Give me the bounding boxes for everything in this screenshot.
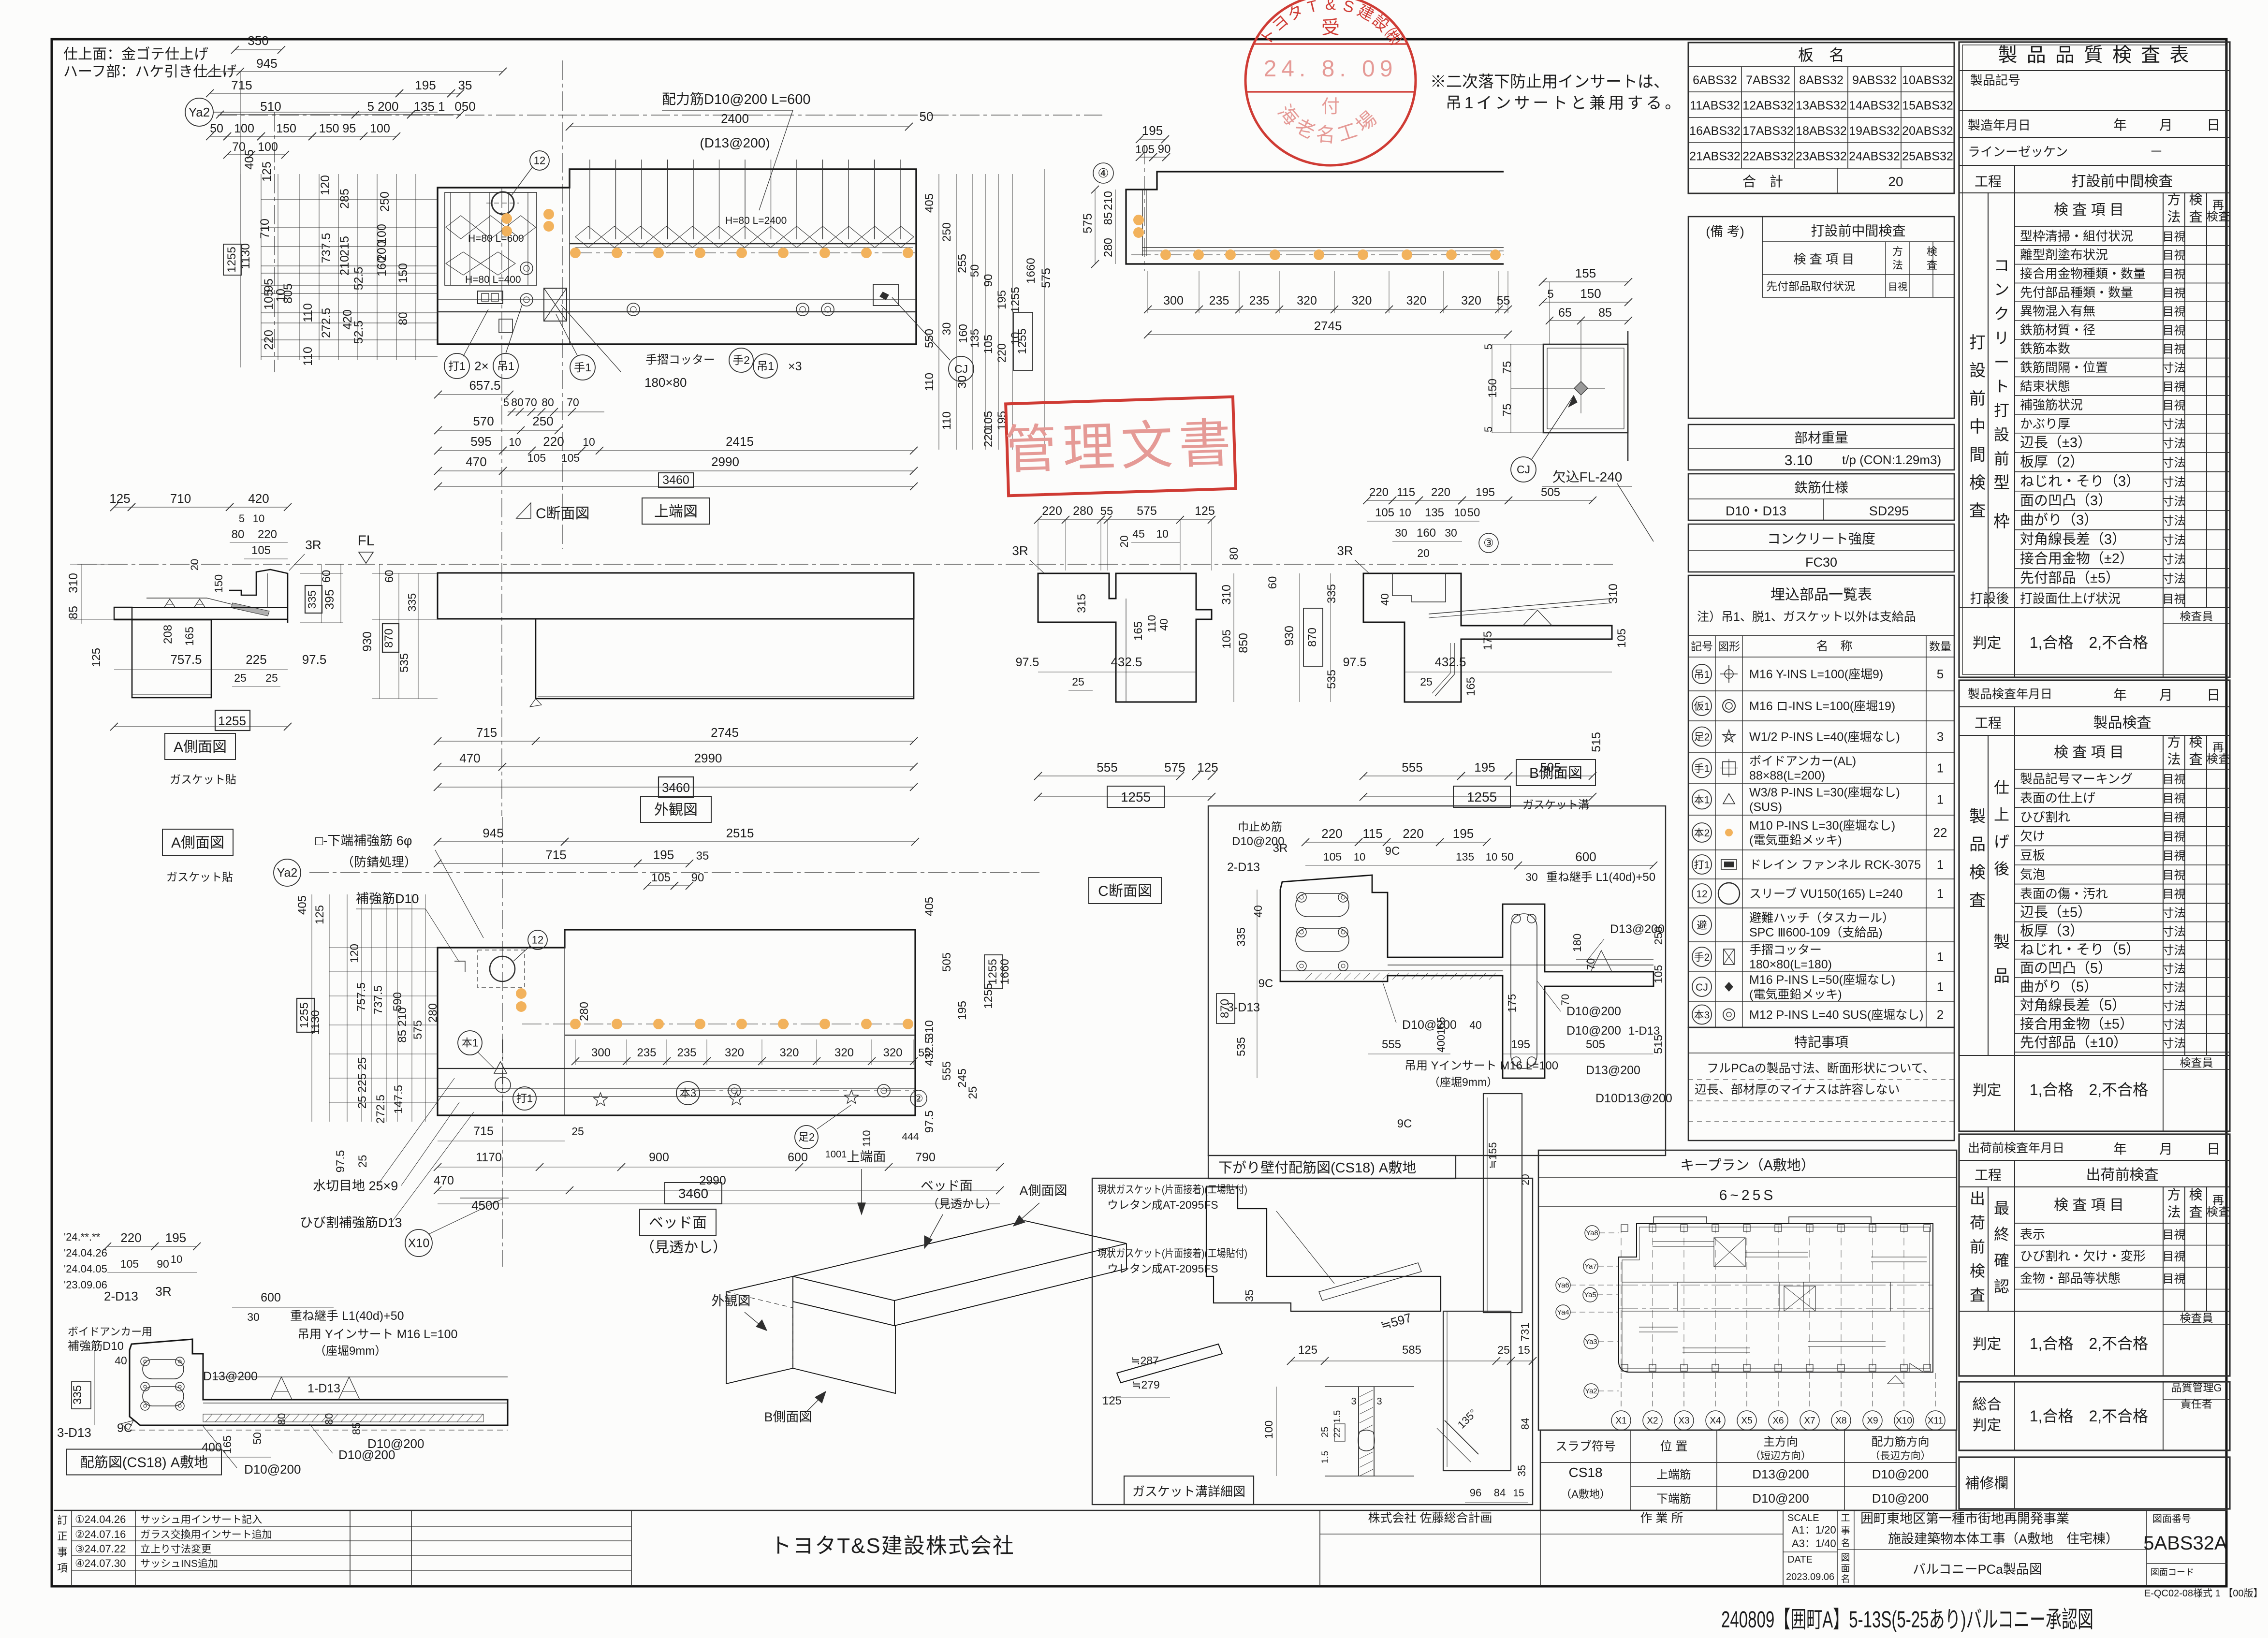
svg-text:405: 405 — [243, 149, 256, 170]
svg-text:2515: 2515 — [726, 826, 754, 840]
svg-text:195: 195 — [653, 848, 674, 862]
svg-text:215: 215 — [338, 236, 351, 256]
svg-text:85: 85 — [1598, 306, 1612, 320]
svg-text:欠込FL-240: 欠込FL-240 — [1552, 469, 1623, 484]
svg-text:主方向: 主方向 — [1763, 1435, 1798, 1448]
svg-text:25: 25 — [1497, 1344, 1510, 1356]
svg-text:手1: 手1 — [574, 361, 591, 374]
svg-text:2400: 2400 — [721, 111, 749, 126]
svg-text:585: 585 — [1402, 1344, 1421, 1357]
svg-text:570: 570 — [473, 414, 494, 428]
svg-text:25: 25 — [966, 1086, 980, 1099]
svg-text:D10@200: D10@200 — [1872, 1491, 1929, 1506]
svg-text:285: 285 — [338, 189, 351, 209]
svg-text:M16 ロ-INS L=100(座堀19): M16 ロ-INS L=100(座堀19) — [1749, 700, 1895, 713]
svg-text:2: 2 — [1937, 1008, 1944, 1022]
svg-text:2745: 2745 — [1314, 319, 1342, 333]
svg-text:方: 方 — [2167, 1187, 2180, 1202]
svg-text:155: 155 — [1575, 266, 1596, 280]
svg-text:1: 1 — [1937, 886, 1944, 901]
svg-text:ドレイン ファンネル RCK-3075: ドレイン ファンネル RCK-3075 — [1749, 858, 1921, 872]
svg-text:120: 120 — [348, 944, 361, 963]
svg-text:50: 50 — [1467, 506, 1480, 519]
svg-text:目視: 目視 — [2163, 811, 2186, 824]
svg-text:X9: X9 — [1867, 1416, 1878, 1426]
svg-text:90: 90 — [691, 871, 704, 884]
svg-text:再: 再 — [2212, 741, 2224, 754]
svg-text:505: 505 — [1586, 1038, 1605, 1051]
svg-text:本2: 本2 — [1694, 828, 1710, 839]
svg-text:製: 製 — [1993, 933, 2010, 951]
svg-text:吊1: 吊1 — [497, 360, 514, 372]
svg-text:505: 505 — [940, 952, 953, 972]
svg-text:320: 320 — [883, 1046, 902, 1059]
svg-text:50: 50 — [210, 122, 223, 135]
svg-text:5: 5 — [1482, 426, 1494, 432]
svg-text:3R: 3R — [1337, 543, 1353, 558]
svg-text:105: 105 — [1615, 629, 1628, 648]
svg-text:確: 確 — [1994, 1252, 2009, 1269]
svg-text:目視: 目視 — [2163, 324, 2186, 337]
svg-text:657.5: 657.5 — [469, 378, 500, 393]
svg-text:検 査 項 目: 検 査 項 目 — [2054, 745, 2124, 760]
svg-text:715: 715 — [476, 725, 497, 740]
svg-text:25: 25 — [1420, 675, 1433, 688]
svg-text:1: 1 — [1937, 857, 1944, 872]
svg-text:FC30: FC30 — [1805, 555, 1837, 570]
svg-text:Ya7: Ya7 — [1584, 1262, 1597, 1271]
svg-text:575: 575 — [411, 1020, 424, 1039]
svg-text:H=80 L=400: H=80 L=400 — [465, 274, 521, 285]
svg-text:225: 225 — [246, 652, 266, 667]
svg-text:品: 品 — [1969, 835, 1986, 854]
svg-text:判定: 判定 — [1973, 1336, 2002, 1352]
svg-text:50: 50 — [968, 264, 981, 278]
svg-text:≒287: ≒287 — [1131, 1354, 1159, 1367]
svg-text:施設建築物本体工事（А敷地 住宅棟）: 施設建築物本体工事（А敷地 住宅棟） — [1888, 1532, 2119, 1546]
svg-text:320: 320 — [1406, 294, 1427, 307]
svg-text:310: 310 — [1607, 584, 1620, 604]
svg-text:400: 400 — [202, 1441, 222, 1454]
svg-text:X2: X2 — [1647, 1416, 1658, 1426]
svg-text:80: 80 — [541, 396, 554, 409]
svg-text:査: 査 — [1969, 502, 1986, 520]
svg-text:査: 査 — [1970, 1287, 1985, 1304]
svg-text:出荷前検査: 出荷前検査 — [2086, 1167, 2159, 1183]
svg-text:105: 105 — [1220, 629, 1233, 649]
svg-text:配力筋D10@200 L=600: 配力筋D10@200 L=600 — [662, 91, 811, 107]
svg-text:(D13@200): (D13@200) — [700, 135, 770, 150]
svg-text:再: 再 — [2212, 199, 2224, 212]
svg-text:コ: コ — [1994, 257, 2009, 274]
svg-text:前: 前 — [1970, 1238, 1985, 1256]
svg-text:310: 310 — [923, 1020, 936, 1039]
svg-text:15ABS32: 15ABS32 — [1902, 99, 1953, 113]
svg-text:88×88(L=200): 88×88(L=200) — [1749, 769, 1825, 783]
svg-text:検査: 検査 — [2207, 210, 2230, 223]
svg-text:3-D13: 3-D13 — [57, 1425, 91, 1440]
svg-text:250: 250 — [940, 222, 953, 242]
svg-text:6ABS32: 6ABS32 — [1693, 73, 1737, 87]
svg-text:目視: 目視 — [2163, 399, 2186, 412]
svg-text:検: 検 — [1927, 246, 1937, 258]
svg-text:先付部品（±10）: 先付部品（±10） — [2020, 1035, 2127, 1051]
svg-text:125: 125 — [109, 491, 130, 506]
svg-text:&: & — [1325, 0, 1336, 13]
svg-text:キープラン（А敷地）: キープラン（А敷地） — [1680, 1157, 1815, 1173]
svg-text:鉄筋本数: 鉄筋本数 — [2020, 341, 2070, 356]
svg-text:打1: 打1 — [448, 360, 466, 372]
svg-text:105: 105 — [527, 452, 546, 464]
svg-text:ン: ン — [1994, 281, 2009, 298]
svg-text:出荷前検査年月日: 出荷前検査年月日 — [1968, 1141, 2064, 1155]
svg-text:400165: 400165 — [1435, 1017, 1447, 1052]
svg-text:辺長（±3）: 辺長（±3） — [2020, 435, 2092, 451]
svg-text:105: 105 — [120, 1258, 139, 1270]
svg-text:C断面図: C断面図 — [1098, 883, 1152, 899]
svg-text:310: 310 — [1220, 585, 1233, 605]
svg-text:24. 8. 09: 24. 8. 09 — [1264, 56, 1398, 82]
svg-text:220: 220 — [1321, 826, 1342, 841]
svg-text:目視: 目視 — [2163, 343, 2186, 356]
svg-text:補強筋状況: 補強筋状況 — [2020, 398, 2083, 412]
svg-text:'23.09.06: '23.09.06 — [64, 1279, 107, 1291]
svg-text:検: 検 — [1969, 474, 1986, 492]
svg-text:現状ガスケット(片面接着)(工場貼付): 現状ガスケット(片面接着)(工場貼付) — [1097, 1184, 1247, 1196]
svg-text:90: 90 — [157, 1258, 169, 1270]
svg-text:10: 10 — [171, 1253, 182, 1265]
svg-text:設: 設 — [1969, 362, 1986, 380]
svg-text:異物混入有無: 異物混入有無 — [2020, 304, 2095, 319]
svg-text:96: 96 — [1470, 1487, 1481, 1499]
svg-text:(電気亜鉛メッキ): (電気亜鉛メッキ) — [1749, 988, 1842, 1001]
svg-text:特記事項: 特記事項 — [1794, 1035, 1848, 1050]
svg-text:目視: 目視 — [2163, 888, 2186, 901]
svg-text:432.5: 432.5 — [923, 1037, 936, 1066]
svg-text:責任者: 責任者 — [2180, 1398, 2212, 1410]
svg-text:60: 60 — [383, 570, 396, 583]
svg-text:35: 35 — [1516, 1465, 1528, 1477]
svg-text:現状ガスケット(片面接着)(工場貼付): 現状ガスケット(片面接着)(工場貼付) — [1097, 1247, 1247, 1259]
svg-text:板厚（2）: 板厚（2） — [2020, 454, 2084, 470]
svg-text:70: 70 — [567, 396, 579, 409]
svg-text:表面の傷・汚れ: 表面の傷・汚れ — [2020, 886, 2108, 901]
svg-text:B側面図: B側面図 — [764, 1410, 812, 1424]
svg-text:10: 10 — [583, 436, 595, 448]
svg-text:208: 208 — [161, 625, 175, 644]
svg-text:判定: 判定 — [1973, 1418, 2002, 1433]
svg-text:300: 300 — [591, 1046, 611, 1059]
svg-text:辺長、部材厚のマイナスは許容しない: 辺長、部材厚のマイナスは許容しない — [1695, 1083, 1900, 1097]
svg-text:1255: 1255 — [225, 247, 238, 272]
svg-text:1660: 1660 — [998, 959, 1011, 984]
svg-text:20: 20 — [1520, 1174, 1531, 1185]
svg-text:目視: 目視 — [2163, 773, 2186, 786]
svg-text:下がり壁付配筋図(CS18) A敷地: 下がり壁付配筋図(CS18) A敷地 — [1218, 1160, 1416, 1176]
svg-text:ボイドアンカー(AL): ボイドアンカー(AL) — [1749, 755, 1856, 768]
svg-text:注）吊1、脱1、ガスケット以外は支給品: 注）吊1、脱1、ガスケット以外は支給品 — [1697, 610, 1916, 624]
svg-text:2415: 2415 — [726, 434, 754, 449]
svg-text:100: 100 — [1262, 1420, 1275, 1439]
svg-text:115: 115 — [1362, 826, 1382, 841]
svg-text:1,合格 2,不合格: 1,合格 2,不合格 — [2030, 1081, 2148, 1098]
svg-text:1255: 1255 — [1121, 790, 1151, 804]
svg-text:ボイドアンカー用: ボイドアンカー用 — [68, 1326, 152, 1338]
svg-text:3R: 3R — [1273, 842, 1288, 855]
svg-text:515: 515 — [1652, 1035, 1665, 1054]
svg-text:作 業 所: 作 業 所 — [1640, 1511, 1683, 1525]
svg-text:検査員: 検査員 — [2180, 1056, 2213, 1069]
svg-text:工程: 工程 — [1975, 716, 2002, 731]
svg-text:目視: 目視 — [2163, 268, 2186, 281]
svg-text:寸法: 寸法 — [2163, 362, 2186, 375]
svg-text:サッシュINS追加: サッシュINS追加 — [140, 1558, 218, 1569]
svg-text:寸法: 寸法 — [2163, 437, 2186, 450]
svg-text:335: 335 — [71, 1385, 84, 1404]
svg-text:80: 80 — [232, 528, 245, 541]
svg-text:月: 月 — [2159, 117, 2173, 132]
svg-text:方: 方 — [1892, 246, 1903, 258]
svg-text:40: 40 — [115, 1354, 127, 1367]
svg-text:手摺コッター: 手摺コッター — [645, 353, 715, 366]
svg-text:30: 30 — [940, 322, 953, 336]
svg-text:X3: X3 — [1678, 1416, 1689, 1426]
svg-text:打設面仕上げ状況: 打設面仕上げ状況 — [2020, 591, 2121, 606]
svg-text:24ABS32: 24ABS32 — [1849, 150, 1900, 163]
svg-text:吊用 Yインサート M16 L=100: 吊用 Yインサート M16 L=100 — [1405, 1059, 1558, 1072]
svg-text:A側面図: A側面図 — [171, 835, 224, 851]
svg-text:250: 250 — [1652, 926, 1665, 945]
svg-text:年: 年 — [2113, 1141, 2127, 1156]
svg-text:3-D13: 3-D13 — [1227, 1001, 1260, 1014]
svg-text:70: 70 — [1559, 994, 1571, 1006]
svg-text:X8: X8 — [1835, 1416, 1846, 1426]
svg-text:寸法: 寸法 — [2163, 981, 2186, 994]
svg-text:555: 555 — [1382, 1038, 1401, 1051]
svg-text:FL: FL — [357, 533, 374, 549]
svg-text:20: 20 — [1888, 174, 1903, 189]
svg-text:550: 550 — [923, 329, 936, 348]
svg-text:X11: X11 — [1928, 1416, 1943, 1426]
svg-text:110: 110 — [861, 1130, 873, 1147]
svg-text:D10D13@200: D10D13@200 — [1595, 1092, 1672, 1105]
svg-text:サッシュ用インサート記入: サッシュ用インサート記入 — [140, 1514, 262, 1525]
svg-text:製品検査: 製品検査 — [2093, 715, 2151, 731]
svg-text:（長辺方向）: （長辺方向） — [1870, 1450, 1931, 1462]
svg-text:395: 395 — [323, 589, 337, 610]
svg-text:135: 135 — [1456, 850, 1474, 863]
svg-text:1-D13: 1-D13 — [307, 1382, 340, 1395]
svg-text:110: 110 — [923, 373, 936, 391]
svg-text:検: 検 — [2189, 734, 2202, 749]
svg-text:115: 115 — [1397, 486, 1415, 499]
svg-text:320: 320 — [1297, 294, 1317, 307]
svg-text:195: 195 — [956, 1001, 969, 1020]
svg-text:250: 250 — [378, 191, 392, 212]
svg-text:巾止め筋: 巾止め筋 — [1238, 820, 1282, 833]
svg-text:930: 930 — [1283, 626, 1296, 646]
svg-text:仕上面：金ゴテ仕上げ: 仕上面：金ゴテ仕上げ — [63, 46, 208, 62]
svg-text:575: 575 — [1039, 268, 1053, 288]
svg-text:面の凹凸（5）: 面の凹凸（5） — [2020, 961, 2112, 976]
svg-text:3R: 3R — [1012, 543, 1028, 558]
svg-text:E-QC02-08様式 1 【00版】: E-QC02-08様式 1 【00版】 — [2144, 1588, 2263, 1599]
svg-text:105: 105 — [982, 411, 995, 430]
svg-text:715: 715 — [473, 1125, 494, 1138]
svg-text:バルコニーPCa製品図: バルコニーPCa製品図 — [1913, 1562, 2042, 1577]
svg-text:1255: 1255 — [298, 1002, 311, 1028]
svg-text:寸法: 寸法 — [2163, 456, 2186, 469]
svg-text:図: 図 — [1841, 1553, 1850, 1563]
svg-text:15: 15 — [1513, 1488, 1524, 1499]
svg-text:ひび割れ: ひび割れ — [2020, 810, 2070, 824]
svg-text:125: 125 — [1102, 1394, 1122, 1407]
svg-text:20: 20 — [1118, 535, 1130, 548]
svg-text:B側面図: B側面図 — [1529, 765, 1582, 781]
svg-text:手2: 手2 — [732, 354, 750, 366]
svg-text:仕: 仕 — [1994, 779, 2009, 796]
svg-text:84: 84 — [1519, 1418, 1531, 1430]
svg-text:10: 10 — [509, 436, 521, 448]
svg-text:法: 法 — [2167, 1205, 2180, 1220]
svg-text:160: 160 — [1417, 526, 1436, 540]
svg-text:D10@200: D10@200 — [244, 1462, 301, 1477]
svg-text:10: 10 — [1454, 506, 1466, 519]
svg-text:④: ④ — [1097, 166, 1109, 180]
svg-text:Ya3: Ya3 — [1585, 1338, 1597, 1346]
svg-text:名: 名 — [1841, 1538, 1850, 1549]
svg-text:図面コード: 図面コード — [2151, 1567, 2194, 1577]
svg-text:法: 法 — [2167, 752, 2180, 767]
svg-text:25: 25 — [234, 672, 247, 684]
svg-text:ねじれ・そり（3）: ねじれ・そり（3） — [2020, 474, 2140, 489]
svg-text:（座堀9mm）: （座堀9mm） — [1429, 1076, 1498, 1088]
svg-text:1130: 1130 — [309, 1010, 322, 1035]
svg-text:195: 195 — [1511, 1038, 1530, 1051]
svg-text:目視: 目視 — [2163, 230, 2186, 243]
svg-text:85: 85 — [350, 1422, 363, 1435]
svg-text:165: 165 — [221, 1435, 234, 1454]
svg-text:リ: リ — [1994, 329, 2009, 347]
svg-text:ガスケット溝: ガスケット溝 — [1522, 798, 1589, 811]
svg-text:432.5: 432.5 — [1111, 655, 1142, 669]
svg-text:60: 60 — [320, 570, 333, 583]
svg-text:法: 法 — [2167, 209, 2180, 224]
svg-text:（見透かし）: （見透かし） — [927, 1198, 997, 1211]
svg-text:245: 245 — [956, 1068, 969, 1088]
svg-text:30: 30 — [1525, 871, 1538, 883]
svg-text:195: 195 — [165, 1230, 186, 1245]
svg-text:335: 335 — [306, 590, 318, 609]
svg-text:272.5: 272.5 — [374, 1095, 387, 1124]
svg-text:600: 600 — [261, 1291, 281, 1304]
svg-text:A側面図: A側面図 — [1019, 1184, 1067, 1198]
svg-text:②: ② — [914, 1093, 923, 1104]
svg-text:方: 方 — [2167, 192, 2180, 207]
svg-text:737.5: 737.5 — [372, 985, 385, 1014]
svg-text:設: 設 — [1994, 426, 2009, 443]
svg-text:470: 470 — [466, 454, 486, 469]
svg-text:打1: 打1 — [1694, 860, 1710, 871]
svg-text:SD295: SD295 — [1869, 504, 1909, 518]
svg-text:555: 555 — [1097, 760, 1117, 775]
svg-text:175: 175 — [1481, 631, 1494, 650]
svg-text:12: 12 — [534, 155, 545, 167]
svg-text:前: 前 — [1969, 390, 1986, 408]
svg-text:280: 280 — [426, 1003, 439, 1023]
svg-text:方: 方 — [2167, 734, 2180, 749]
svg-text:寸法: 寸法 — [2163, 1037, 2186, 1050]
svg-text:1: 1 — [1937, 792, 1944, 807]
svg-text:9C: 9C — [1258, 977, 1273, 990]
svg-text:25: 25 — [1320, 1427, 1331, 1437]
svg-text:項: 項 — [57, 1562, 68, 1574]
svg-text:製品記号: 製品記号 — [1970, 73, 2020, 88]
svg-text:1660: 1660 — [1024, 258, 1038, 283]
svg-text:25: 25 — [356, 1155, 369, 1168]
svg-text:1.5: 1.5 — [1332, 1410, 1343, 1423]
svg-text:検 査 項 目: 検 査 項 目 — [2054, 1198, 2124, 1214]
svg-text:吊1: 吊1 — [757, 360, 774, 372]
svg-text:470: 470 — [459, 751, 480, 765]
svg-text:9C: 9C — [1397, 1117, 1412, 1130]
svg-text:320: 320 — [834, 1046, 854, 1059]
svg-text:165: 165 — [1132, 621, 1145, 641]
svg-text:50: 50 — [920, 109, 934, 124]
svg-text:検: 検 — [1970, 1262, 1985, 1280]
svg-text:105: 105 — [1135, 143, 1155, 156]
svg-text:付: 付 — [1321, 97, 1340, 117]
svg-text:25ABS32: 25ABS32 — [1902, 150, 1953, 163]
svg-text:ー: ー — [1994, 353, 2009, 371]
svg-text:945: 945 — [483, 826, 503, 840]
svg-text:部材重量: 部材重量 — [1794, 430, 1848, 445]
svg-text:1.5: 1.5 — [1320, 1451, 1331, 1463]
svg-text:715: 715 — [231, 78, 252, 92]
svg-text:埋込部品一覧表: 埋込部品一覧表 — [1771, 587, 1872, 603]
svg-text:寸法: 寸法 — [2163, 476, 2186, 489]
svg-text:1255: 1255 — [1016, 328, 1029, 354]
svg-text:検: 検 — [2189, 192, 2202, 207]
svg-text:235: 235 — [637, 1046, 656, 1059]
svg-text:555: 555 — [940, 1061, 953, 1081]
svg-text:1,合格 2,不合格: 1,合格 2,不合格 — [2030, 634, 2148, 651]
svg-text:③: ③ — [1483, 537, 1494, 550]
svg-text:595: 595 — [470, 434, 491, 449]
svg-text:790: 790 — [915, 1151, 936, 1164]
svg-text:600: 600 — [1575, 849, 1596, 864]
svg-text:335: 335 — [406, 593, 418, 612]
svg-text:110: 110 — [940, 411, 953, 430]
svg-text:1: 1 — [1937, 761, 1944, 775]
svg-text:100: 100 — [370, 122, 390, 135]
svg-text:ウレタン成AT-2095FS: ウレタン成AT-2095FS — [1107, 1262, 1218, 1275]
svg-text:検査: 検査 — [2207, 1206, 2230, 1219]
svg-text:30: 30 — [247, 1311, 260, 1323]
svg-text:W3/8 P-INS L=30(座堀なし): W3/8 P-INS L=30(座堀なし) — [1749, 786, 1900, 800]
svg-text:ねじれ・そり（5）: ねじれ・そり（5） — [2020, 942, 2140, 957]
svg-text:ひび割補強筋D13: ひび割補強筋D13 — [300, 1215, 402, 1230]
svg-text:80: 80 — [323, 1413, 335, 1425]
svg-text:型: 型 — [1993, 474, 2010, 492]
svg-text:CJ: CJ — [1517, 463, 1530, 476]
svg-text:判定: 判定 — [1973, 1082, 2002, 1098]
svg-text:年: 年 — [2113, 117, 2127, 132]
svg-text:（短辺方向）: （短辺方向） — [1750, 1450, 1811, 1462]
svg-text:105: 105 — [1323, 850, 1342, 863]
svg-text:(電気亜鉛メッキ): (電気亜鉛メッキ) — [1749, 834, 1842, 847]
svg-text:日: 日 — [2207, 1141, 2220, 1156]
